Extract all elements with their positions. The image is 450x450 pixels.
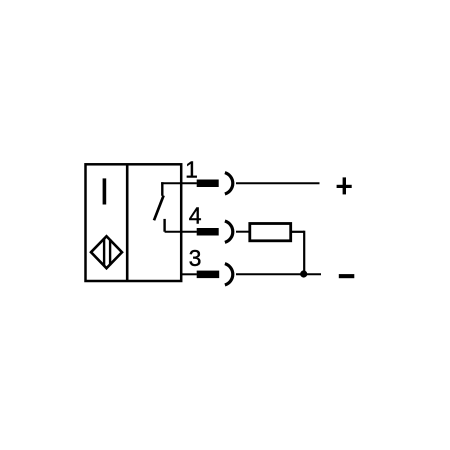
- pin 4 wire from switch to terminal: [165, 231, 197, 233]
- pin 3 connector arc: [225, 264, 233, 285]
- pin 4 connector arc: [225, 221, 233, 242]
- resistor load RL: [250, 224, 291, 241]
- sensor body divider: [126, 164, 129, 281]
- pin 1 wire from switch to terminal: [161, 182, 197, 184]
- pin 4 terminal bar: [197, 228, 219, 236]
- pin 3 terminal bar: [197, 271, 220, 279]
- pin 1 wire to plus: [236, 182, 320, 184]
- switch S1 blade: [154, 196, 164, 221]
- pin 3 wire from body to terminal: [181, 273, 197, 275]
- inductive sensor symbol diamond: [91, 236, 122, 268]
- plus terminal: [337, 177, 352, 194]
- diamond inner line right: [109, 239, 111, 265]
- active face bar: [103, 178, 107, 204]
- pin 1 terminal bar: [197, 180, 219, 188]
- junction node dot: [300, 270, 307, 277]
- svg-text:1: 1: [185, 157, 198, 183]
- switch S1 bottom stub: [163, 219, 165, 232]
- svg-text:3: 3: [189, 245, 202, 271]
- minus terminal: [339, 274, 355, 278]
- pin 3 wire to minus: [236, 273, 321, 275]
- svg-text:4: 4: [189, 203, 202, 229]
- pin 4 wire to resistor: [236, 231, 250, 233]
- wire resistor to corner: [291, 231, 305, 233]
- sensor body U1: [86, 164, 182, 281]
- pin 1 connector arc: [225, 173, 233, 194]
- switch S1 top stub: [161, 182, 163, 196]
- wire corner down to node: [303, 231, 305, 275]
- diamond inner line left: [103, 239, 105, 266]
